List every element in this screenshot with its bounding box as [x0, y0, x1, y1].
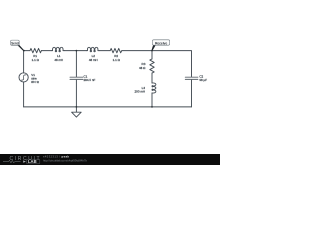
svg-text:200 mH: 200 mH	[134, 90, 145, 94]
wire V1 bottom to bottom rail	[23, 82, 25, 107]
svg-text:1.1 Ω: 1.1 Ω	[32, 58, 40, 62]
node B junction dot	[76, 50, 78, 52]
wire node B down to C1	[75, 51, 77, 77]
flag Send box	[11, 40, 20, 45]
inductor L1	[52, 47, 65, 51]
ground symbol	[72, 112, 82, 117]
ground stub	[75, 107, 77, 112]
capacitor C2	[185, 76, 198, 78]
node A junction dot	[23, 50, 25, 52]
wire node C to top-right corner and down to C2	[152, 51, 192, 77]
wire R2 to node C	[122, 50, 152, 52]
wire R1 to L1	[41, 50, 51, 52]
wire L2 to R2	[100, 50, 111, 52]
resistor R3	[150, 59, 154, 73]
inductor L3	[152, 83, 156, 93]
svg-text:http://circuitlab.com/c4qk93kd: http://circuitlab.com/c4qk93kd84b7b	[43, 158, 87, 162]
svg-text:LAB: LAB	[28, 159, 37, 164]
wire node A down to V1	[23, 51, 25, 73]
node D junction dot	[151, 106, 153, 108]
resistor R1	[30, 48, 41, 52]
svg-text:48 mH: 48 mH	[89, 58, 98, 62]
inductor L2	[86, 47, 99, 51]
wire node C down to R3	[151, 51, 153, 59]
ground junction dot	[76, 106, 78, 108]
footer bar	[0, 154, 220, 165]
V1 sine squiggle	[21, 75, 26, 80]
svg-text:Send: Send	[11, 42, 19, 46]
flag Receive pointer	[152, 45, 156, 51]
logo squiggle wire	[3, 160, 21, 163]
resistor R2	[110, 48, 122, 52]
svg-text:48 Ω: 48 Ω	[139, 66, 146, 70]
node C junction dot	[151, 50, 153, 52]
voltage source V1 circle	[19, 73, 28, 82]
logo LAB box	[27, 159, 40, 164]
wire top: node A to R1	[24, 50, 30, 52]
svg-text:48 mH: 48 mH	[54, 58, 63, 62]
svg-text:1.1 Ω: 1.1 Ω	[113, 58, 121, 62]
wire C1 bottom to bottom rail	[75, 80, 77, 107]
wire C2 bottom to bottom rail	[191, 80, 193, 107]
svg-text:80 Hz: 80 Hz	[31, 80, 39, 84]
logo arrow	[23, 160, 26, 162]
wire L1 to L2 through node B	[65, 50, 87, 52]
svg-text:98 µF: 98 µF	[199, 78, 207, 82]
wire bottom rail	[24, 106, 192, 108]
capacitor C1	[70, 76, 83, 78]
wire L3 to bottom rail	[151, 93, 153, 107]
flag Receive box	[152, 40, 169, 45]
flag Send pointer	[17, 45, 24, 51]
svg-text:284.5 nF: 284.5 nF	[84, 78, 96, 82]
svg-text:Receive: Receive	[155, 41, 167, 45]
wire R3 to L3	[151, 73, 153, 83]
